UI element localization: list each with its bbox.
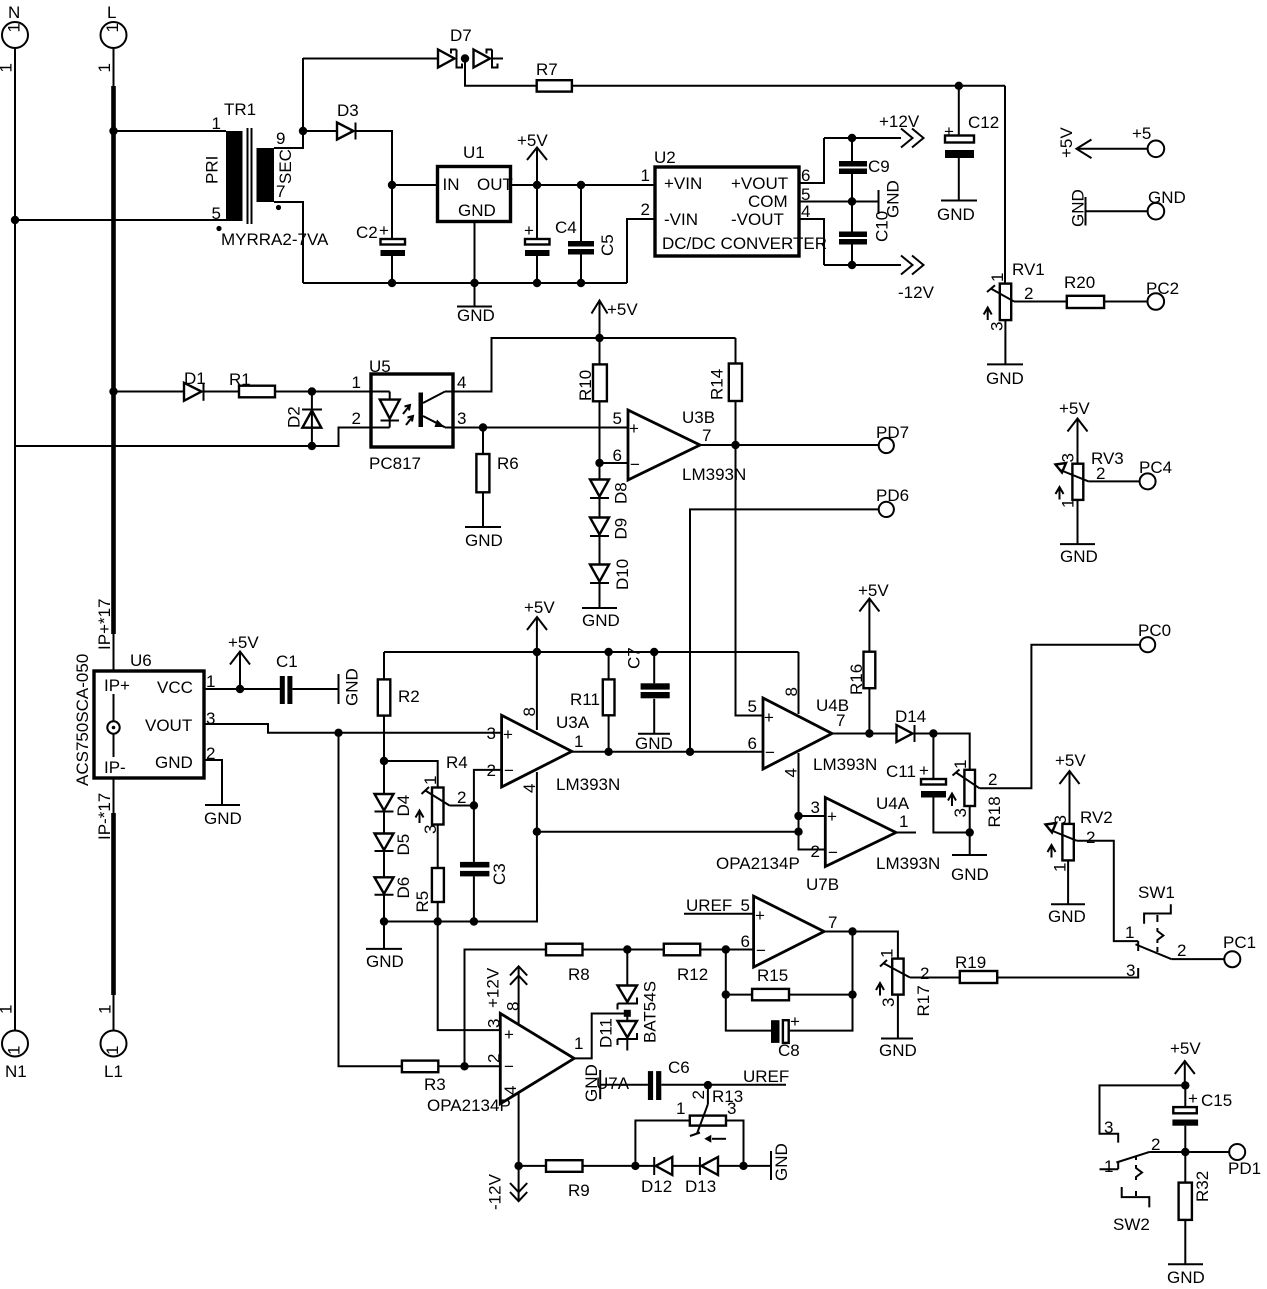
svg-text:SEC: SEC [276,149,295,184]
diode D7a [438,26,472,68]
svg-text:C12: C12 [968,113,999,132]
svg-text:1: 1 [951,760,970,769]
wire RV1 bottom to ground [1004,320,1006,364]
op-amp U4A [716,794,940,894]
svg-text:−: − [765,743,775,762]
wire R18 bottom [969,806,971,855]
wire U4B out to D14 [832,733,897,735]
resistor R5 [413,825,444,922]
node D2 top [308,387,316,395]
svg-text:C11: C11 [886,762,916,781]
svg-text:4: 4 [457,373,466,392]
capacitor C2 [356,185,405,283]
wire U6 GND pin [204,760,222,805]
wire D1 to R1 [204,391,240,393]
svg-text:C9: C9 [868,157,890,176]
capacitor C12 [944,86,999,201]
svg-text:GND: GND [1048,907,1086,926]
wire R13 pin1 down [635,1121,689,1166]
svg-text:LM393N: LM393N [682,465,746,484]
node R9 left junction [514,1162,522,1170]
wire U5 pin3 to R6 [453,427,483,429]
node R15 right junction [848,990,856,998]
resistor R2 [378,652,420,761]
pin PC4 [1139,458,1172,489]
wire U6 IP- to L1 [113,778,115,815]
svg-text:+12V: +12V [879,112,920,131]
wire output down to R15 and C8 [788,932,852,1031]
ground pin symbol [1069,188,1186,227]
svg-text:GND: GND [204,809,242,828]
svg-text:4: 4 [501,1086,520,1095]
wire R18 wiper to PC0 [980,645,1140,789]
svg-text:C3: C3 [490,863,509,885]
node R4 wiper junction [470,801,478,809]
wire U4A pin3 [799,815,826,817]
capacitor C1 [276,652,339,704]
wire R2 junction to R4 pin1 [384,761,438,788]
resistor R32 [1179,1152,1212,1264]
node C4 bottom [533,279,541,287]
wire U3A out to U4B pin6 [572,751,763,753]
wire U6 VCC [204,688,280,690]
wire N vertical [14,48,16,1030]
svg-text:PC1: PC1 [1223,933,1256,952]
node D13 right junction [739,1162,747,1170]
wire U3A pin4 [536,772,538,832]
wire D14 to R18 pin1 [915,734,970,770]
svg-text:D5: D5 [394,834,413,856]
svg-text:R3: R3 [424,1075,446,1094]
pin PC1 [1223,933,1256,967]
wire U2 COM [799,201,879,203]
wire U3A pin8 [536,652,538,730]
pin PD7 [876,423,909,453]
svg-text:2: 2 [988,770,997,789]
svg-text:+5V: +5V [607,300,638,319]
svg-text:3: 3 [485,1019,504,1028]
svg-text:GND: GND [937,205,975,224]
wire R17 wiper to R19 [910,977,960,979]
op-amp U7A [427,1002,630,1115]
resistor R14 [708,338,743,445]
svg-text:3: 3 [1126,961,1135,980]
svg-text:+5: +5 [1132,124,1151,143]
wire L1 thin bottom [113,993,115,1030]
svg-text:+VOUT: +VOUT [731,174,788,193]
svg-text:1: 1 [212,114,221,133]
resistor R19 [955,953,997,983]
svg-text:1: 1 [1104,1157,1113,1176]
capacitor C15 [1172,1085,1232,1152]
diode D10 [590,536,632,590]
svg-text:3: 3 [206,709,215,728]
svg-text:GND: GND [1167,1268,1205,1287]
svg-text:+: + [919,761,929,780]
ground below U6 [204,805,242,828]
terminal L [95,3,127,73]
svg-text:+: + [504,1025,514,1044]
trimmer R17 [876,949,933,1017]
svg-text:8: 8 [504,1002,523,1011]
node D11 mid square [624,1010,631,1017]
svg-text:3: 3 [1059,453,1078,462]
capacitor C8 [771,1012,800,1060]
wire down to RV1 pin1 [1004,86,1006,284]
svg-text:R6: R6 [497,454,519,473]
svg-text:2: 2 [1177,941,1186,960]
diode D4 [375,761,414,817]
node output junction [848,927,856,935]
node PD6 branch [686,748,694,756]
diode D6 [375,851,414,899]
svg-text:+5V: +5V [1059,399,1090,418]
diode D8 [590,463,631,504]
wire U2 +VOUT up [799,138,824,183]
svg-text:-VIN: -VIN [664,210,698,229]
ground below C12 [937,201,977,225]
svg-text:1: 1 [676,1099,685,1118]
svg-text:TR1: TR1 [224,100,256,119]
wire TR1 pin7 down [274,202,303,283]
svg-text:R17: R17 [914,985,933,1016]
wire R3 to U7A pin2 [438,1065,500,1067]
node R18 bottom junction [966,828,974,836]
current sensor U6 [73,598,215,840]
node COM junction [848,197,856,205]
trimmer R4 [416,753,468,834]
ground below rail [366,922,404,972]
wire TR1 pin5 from N [15,219,226,221]
svg-text:+: + [379,221,389,240]
svg-text:−: − [504,761,514,780]
svg-text:1: 1 [1125,923,1134,942]
node U1 GND bottom [470,279,478,287]
svg-text:PRI: PRI [203,156,222,184]
ground right of C1 [339,668,362,706]
svg-text:L: L [107,3,116,22]
power +5V above RV3 [1059,399,1090,464]
diode D11b [618,1014,638,1051]
diode D5 [375,812,414,856]
wire R4 wiper to C3 node [450,805,474,807]
svg-text:+: + [503,725,513,744]
svg-text:GND: GND [879,1041,917,1060]
svg-text:IP+*17: IP+*17 [95,598,114,650]
svg-text:+5V: +5V [524,598,555,617]
svg-text:R19: R19 [955,953,986,972]
node C3 rail junction [470,917,478,925]
node C5 top [577,181,585,189]
capacitor C4 [524,185,577,283]
diode D1 [184,369,206,401]
svg-text:R14: R14 [708,369,727,400]
wire PD6 to U4B pin6 [690,509,879,751]
svg-text:U6: U6 [130,651,152,670]
svg-text:1: 1 [988,273,1007,282]
ground below R17 [879,1039,917,1061]
wire R8 to D11 [583,949,664,951]
svg-text:+5V: +5V [517,131,548,150]
svg-text:GND: GND [343,668,362,706]
node C4 top [533,181,541,189]
node C7 top [650,648,658,656]
capacitor C9 [839,138,890,202]
svg-text:D3: D3 [337,101,359,120]
capacitor C10 [839,202,892,266]
svg-text:VCC: VCC [157,678,193,697]
node C2 bottom [388,279,396,287]
resistor R11 [570,652,615,752]
wire D12 to D13 [672,1165,700,1167]
svg-text:BAT54S: BAT54S [641,981,660,1043]
wire R19 to SW1 pin3 [997,968,1138,978]
svg-text:C4: C4 [555,218,577,237]
wire +5V rail over U3A [384,651,799,653]
svg-text:PC817: PC817 [369,454,421,473]
node R11 top [604,648,612,656]
node D11 top [623,945,631,953]
wire D13 to ground [718,1165,771,1167]
trimmer R18 [948,760,1004,828]
svg-text:OUT: OUT [477,175,513,194]
switch SW1 [1125,883,1186,980]
svg-text:−: − [756,941,766,960]
power +12V arrow [879,112,924,148]
node C9 top [848,134,856,142]
wire VOUT down to R3 [339,733,402,1067]
svg-text:+: + [755,906,765,925]
wire U4B pin4 chain [799,753,826,850]
svg-text:RV2: RV2 [1080,808,1113,827]
svg-text:1: 1 [96,1005,115,1014]
svg-text:C8: C8 [778,1041,800,1060]
svg-text:3: 3 [988,322,1007,331]
switch SW2 [1100,1118,1186,1234]
wire R20 to PC2 [1104,301,1147,303]
wire +12V rail [824,137,901,139]
svg-text:IP+: IP+ [104,676,130,695]
svg-text:IP-: IP- [104,758,126,777]
pin PD6 [876,486,909,517]
svg-text:-12V: -12V [486,1173,505,1210]
capacitor C6 [600,1058,786,1100]
wire D6 to rail [383,895,385,922]
node N pin5 junction [11,216,19,224]
node R2 bottom junction [380,757,388,765]
svg-text:U2: U2 [654,148,676,167]
wire RV2 bottom [1067,860,1069,904]
op-amp U7B lower [741,896,838,967]
node PD1 junction [1181,1148,1189,1156]
node C6 R13 junction [704,1081,712,1089]
ground below U1 [457,283,495,325]
node R11 bottom [604,748,612,756]
svg-text:GND: GND [1060,547,1098,566]
svg-text:N1: N1 [5,1062,27,1081]
wire U4A output stub [896,832,916,834]
wire R1 to U5 pin1 [275,391,371,393]
svg-text:U1: U1 [463,143,485,162]
svg-text:L1: L1 [104,1062,123,1081]
regulator U1 [438,143,513,222]
ground at COM [879,180,903,218]
wire U4B pin8 [798,652,800,714]
svg-text:D9: D9 [612,518,631,540]
diode D9 [590,498,631,540]
resistor R3 [402,1061,446,1094]
resistor R8 [546,944,590,984]
wire D3 anode [303,130,337,132]
transformer TR1 [203,100,330,249]
ground below R32 [1167,1264,1205,1287]
power +5V above rail [592,300,639,338]
svg-text:D12: D12 [641,1177,672,1196]
svg-text:PD1: PD1 [1228,1159,1261,1178]
svg-text:D8: D8 [612,482,631,504]
svg-text:N: N [8,3,20,22]
wire top to D7 [303,58,438,60]
wire SW2 pin3 branch [1100,1085,1186,1142]
op-amp U4B [748,687,878,777]
svg-text:3: 3 [487,724,496,743]
svg-text:3: 3 [457,409,466,428]
svg-text:C15: C15 [1201,1091,1232,1110]
ground below RV1 [986,364,1024,388]
wire to PD1 [1185,1151,1229,1153]
svg-text:2: 2 [641,200,650,219]
svg-text:UREF: UREF [686,896,732,915]
ground left of C6 [582,1064,601,1102]
svg-text:R20: R20 [1064,273,1095,292]
svg-text:GND: GND [582,611,620,630]
svg-text:R4: R4 [446,753,468,772]
svg-text:2: 2 [689,1090,708,1099]
node R6 top [479,423,487,431]
svg-text:1: 1 [103,1046,122,1055]
resistor R20 [1064,273,1104,308]
wire ground rail under U1 [303,282,627,284]
ground below C7 [635,734,673,753]
svg-text:GND: GND [986,369,1024,388]
svg-text:3: 3 [879,998,898,1007]
wire L vertical thin top [113,48,115,88]
potentiometer RV1 [984,260,1045,331]
svg-text:GND: GND [582,1064,601,1102]
svg-text:PC0: PC0 [1138,621,1171,640]
node C15 top junction [1181,1081,1189,1089]
node R10 top [595,334,603,342]
wire D7 stub right [492,58,503,60]
svg-text:5: 5 [212,204,221,223]
wire R12 to pin6 [700,949,753,951]
terminal L1 [96,1005,127,1081]
node R14 output junction [731,441,739,449]
net label UREF pin5 [684,896,754,915]
wire U6 VOUT [204,724,502,733]
svg-text:7: 7 [836,711,845,730]
wire TR1 pin1 from L [114,130,227,132]
wire L thick bus lower [111,813,116,995]
terminal N [0,3,28,73]
node R16 bottom [865,729,873,737]
ground below D10 [582,583,620,630]
node C5 bottom [577,279,585,287]
node pin6 junction [595,459,603,467]
svg-text:R12: R12 [677,965,708,984]
svg-text:U3A: U3A [556,713,590,732]
svg-text:PD6: PD6 [876,486,909,505]
svg-text:GND: GND [635,734,673,753]
resistor R10 [576,338,607,463]
wire R17 bottom [897,995,899,1039]
svg-text:1: 1 [5,1046,24,1055]
svg-text:D2: D2 [285,406,304,428]
svg-text:R9: R9 [568,1181,590,1200]
op-amp U3A [487,707,621,794]
diode D12 [641,1157,672,1196]
svg-text:OPA2134P: OPA2134P [427,1096,511,1115]
wire R7 to right [572,85,1005,87]
capacitor C3 [460,806,509,922]
svg-text:U4A: U4A [876,794,910,813]
svg-text:1: 1 [421,776,440,785]
svg-text:C2: C2 [356,223,378,242]
svg-text:R7: R7 [536,60,558,79]
svg-text:GND: GND [951,865,989,884]
node U4A pin3 junction [794,812,802,820]
pin PD1 [1228,1144,1261,1178]
svg-text:+12V: +12V [484,967,503,1008]
wire D7 junction down to R7 [465,59,537,86]
svg-text:3: 3 [727,1099,736,1118]
capacitor C7 [625,647,670,733]
node R15 left junction [722,990,730,998]
wire PD7 junction down to U4B pin5 [736,445,764,716]
svg-text:−: − [828,843,838,862]
svg-text:UREF: UREF [743,1067,789,1086]
svg-text:U3B: U3B [682,408,715,427]
dc/dc converter U2 [641,148,827,256]
trimmer R13 [676,1085,743,1143]
svg-text:IP-*17: IP-*17 [95,793,114,840]
diode D3 [337,101,359,140]
capacitor C11 [886,734,970,833]
svg-text:2: 2 [352,409,361,428]
svg-text:R15: R15 [757,966,788,985]
svg-text:C6: C6 [668,1058,690,1077]
diode D14 [895,707,926,742]
svg-text:1: 1 [574,732,583,751]
svg-text:1: 1 [641,166,650,185]
node VCC +5V junction [236,685,244,693]
svg-text:−: − [630,455,640,474]
svg-text:C7: C7 [625,647,644,669]
svg-text:3: 3 [811,798,820,817]
svg-text:+5V: +5V [1170,1039,1201,1058]
svg-text:D6: D6 [394,877,413,899]
svg-text:9: 9 [276,129,285,148]
node D6 rail junction [380,917,388,925]
node pin6 feedback junction [722,945,730,953]
svg-text:+5V: +5V [1055,751,1086,770]
wire neutral rail to U5 pin2 [15,428,371,447]
svg-text:C5: C5 [598,234,617,256]
svg-text:6: 6 [741,932,750,951]
svg-text:5: 5 [613,409,622,428]
wire R13 pin3 down [726,1121,744,1166]
resistor R12 [664,944,708,984]
